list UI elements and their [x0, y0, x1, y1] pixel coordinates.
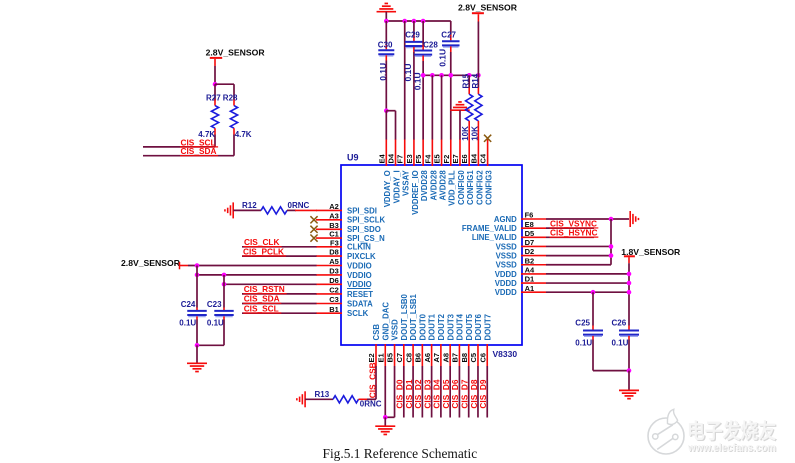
svg-text:CIS_HSYNC: CIS_HSYNC — [550, 228, 598, 238]
svg-text:A7: A7 — [432, 353, 441, 363]
pin A3 (SPI_SCLK) left stub — [316, 211, 385, 224]
svg-text:DOUT3: DOUT3 — [446, 313, 455, 340]
svg-text:RESET: RESET — [347, 290, 373, 299]
pin A8 (DOUT3) bottom stub — [441, 313, 455, 366]
pin A1 (VDDD) right stub — [495, 284, 546, 297]
wire D2 row — [546, 253, 613, 258]
svg-text:CIS_RSTN: CIS_RSTN — [244, 284, 285, 294]
svg-text:VSSD: VSSD — [391, 319, 400, 341]
svg-text:C2: C2 — [329, 286, 339, 295]
node CIS_D5 wire — [441, 366, 451, 418]
node junction C24 top — [195, 263, 200, 268]
wire D6 row — [224, 283, 317, 285]
svg-text:CONFIG0: CONFIG0 — [457, 170, 466, 205]
pin E3 (VDDREF_IO) top stub — [405, 139, 420, 215]
svg-text:VSSD: VSSD — [496, 261, 518, 270]
svg-text:VDD_PLL: VDD_PLL — [448, 170, 457, 206]
svg-text:SDATA: SDATA — [347, 299, 373, 308]
svg-text:VDDAY_I: VDDAY_I — [392, 170, 401, 203]
wire A5 row — [188, 265, 317, 267]
watermark text — [687, 419, 778, 455]
pin D6 (VDDIO) left stub — [316, 276, 372, 289]
wire branch to D4 — [386, 111, 395, 140]
node CIS_SCL net stub — [143, 137, 218, 147]
capacitor C28 0.1U — [412, 21, 438, 140]
svg-text:2.8V_SENSOR: 2.8V_SENSOR — [121, 258, 181, 268]
wire R28 to CIS_SDA — [233, 135, 235, 156]
svg-text:C8: C8 — [404, 353, 413, 363]
capacitor C24 0.1U — [179, 266, 206, 346]
svg-text:SPI_SCLK: SPI_SCLK — [347, 216, 385, 225]
node CIS_D6 wire — [450, 366, 460, 418]
pin A6 (DOUT1) bottom stub — [423, 313, 437, 366]
svg-text:C29: C29 — [405, 31, 420, 40]
ground at R13 — [297, 391, 305, 407]
svg-text:0.1U: 0.1U — [575, 338, 592, 347]
wire ground to bus — [385, 12, 387, 21]
node junction rail bottom — [627, 368, 632, 373]
svg-text:VDDIO: VDDIO — [347, 271, 372, 280]
svg-text:VDDD: VDDD — [495, 288, 517, 297]
svg-text:AVDD28: AVDD28 — [429, 170, 438, 201]
pin F7 (VSSAY) top stub — [396, 139, 411, 196]
pin B8 (DOUT5) bottom stub — [460, 313, 474, 366]
svg-text:A8: A8 — [441, 353, 450, 363]
no-connect X pin C1 — [310, 235, 317, 242]
svg-text:C26: C26 — [612, 319, 627, 328]
node CIS_VSYNC wire pin E8 — [546, 218, 598, 228]
node junction C23-D3 — [222, 273, 227, 278]
svg-text:C24: C24 — [181, 300, 196, 309]
svg-text:C30: C30 — [378, 41, 393, 50]
pin D4 (VDDAY_I) top stub — [387, 139, 402, 203]
pin F2 (VDD_PLL) top stub — [442, 139, 457, 206]
pin C8 (DOUT_LSB1) bottom stub — [404, 293, 418, 366]
pin D7 (VSSD) right stub — [496, 238, 546, 251]
pin E6 (CONFIG1) top stub — [460, 139, 475, 205]
wire AGND F6 to ground — [546, 218, 629, 220]
ground bottom center — [375, 426, 395, 434]
svg-text:F7: F7 — [396, 155, 405, 164]
caption Fig.5.1 Reference Schematic — [323, 446, 478, 461]
capacitor C30 0.1U — [378, 21, 395, 111]
svg-text:E7: E7 — [451, 154, 460, 163]
node bus dots — [384, 19, 425, 24]
wire VSSD vertical — [610, 219, 612, 265]
wire B5 col — [385, 366, 394, 417]
svg-text:B7: B7 — [451, 353, 460, 363]
watermark elecfans logo — [648, 409, 684, 454]
pin B3 (SPI_SDO) left stub — [316, 221, 381, 234]
node junction C24-D3 — [195, 273, 200, 278]
svg-text:C4: C4 — [479, 153, 488, 163]
svg-text:C6: C6 — [478, 353, 487, 363]
svg-text:F6: F6 — [525, 211, 534, 220]
no-connect X pin B3 — [310, 226, 317, 233]
svg-text:0.1U: 0.1U — [612, 338, 629, 347]
svg-text:VSSD: VSSD — [496, 252, 518, 261]
svg-text:DVDD28: DVDD28 — [420, 170, 429, 201]
no-connect X pin A3 — [310, 216, 317, 223]
svg-text:VDDD: VDDD — [495, 279, 517, 288]
wire F4 col — [431, 75, 433, 139]
svg-text:R12: R12 — [242, 201, 257, 210]
svg-text:DOUT4: DOUT4 — [456, 313, 465, 340]
svg-text:A6: A6 — [423, 353, 432, 363]
resistor R27 4.7K — [198, 93, 221, 138]
wire E5 col — [441, 75, 443, 139]
svg-text:GND_DAC: GND_DAC — [381, 302, 390, 341]
node CIS_D0 wire — [395, 366, 405, 418]
capacitor C29 0.1U — [403, 21, 423, 140]
pin B4 (CONFIG2) top stub — [469, 139, 484, 205]
svg-text:E8: E8 — [525, 220, 534, 229]
svg-text:DOUT2: DOUT2 — [437, 313, 446, 340]
node CIS_PCLK wire to pin D8 — [242, 246, 317, 256]
wire 2.8V to R27/R28 junction — [214, 66, 216, 84]
svg-text:SPI_CS_N: SPI_CS_N — [347, 234, 385, 243]
svg-text:E2: E2 — [367, 353, 376, 362]
svg-text:R15: R15 — [462, 73, 471, 88]
node CIS_D4 wire — [432, 366, 442, 418]
svg-text:C3: C3 — [329, 295, 339, 304]
svg-text:PIXCLK: PIXCLK — [347, 252, 376, 261]
wire branch to R28 — [215, 84, 234, 99]
svg-text:U9: U9 — [347, 153, 359, 163]
pin B2 (VSSD) right stub — [496, 256, 546, 269]
svg-text:D6: D6 — [329, 276, 339, 285]
pin D2 (VSSD) right stub — [496, 247, 546, 260]
wire F7 col — [404, 21, 406, 140]
svg-text:F3: F3 — [330, 238, 339, 247]
svg-text:0.1U: 0.1U — [179, 318, 196, 327]
svg-text:10K: 10K — [470, 126, 479, 141]
svg-text:B2: B2 — [525, 256, 535, 265]
svg-text:LINE_VALID: LINE_VALID — [472, 233, 517, 242]
svg-text:4.7K: 4.7K — [235, 130, 252, 139]
svg-text:DOUT0: DOUT0 — [418, 313, 427, 340]
pin C3 (SDATA) left stub — [316, 295, 373, 308]
svg-text:D2: D2 — [525, 247, 535, 256]
svg-text:电子发烧友: 电子发烧友 — [687, 419, 776, 443]
svg-text:B1: B1 — [329, 305, 339, 314]
svg-text:DOUT7: DOUT7 — [483, 314, 492, 340]
svg-text:D7: D7 — [525, 238, 535, 247]
pin B6 (DOUT0) bottom stub — [414, 313, 428, 366]
wire D7 row — [546, 244, 613, 249]
wire C23 to C24 bottom — [197, 344, 224, 346]
capacitor C27 0.1U — [438, 21, 460, 140]
node pullup junction — [213, 82, 218, 87]
wire to bottom-right ground — [628, 371, 630, 390]
pin B7 (DOUT4) bottom stub — [451, 313, 465, 366]
wire 2.8V bus (mid) — [423, 74, 478, 76]
node CIS_D8 wire — [469, 366, 479, 418]
node CIS_D2 wire — [413, 366, 423, 418]
wire top bus (gnd) — [386, 20, 451, 22]
svg-text:CLKIN: CLKIN — [347, 243, 371, 252]
svg-text:CIS_CSB: CIS_CSB — [367, 362, 377, 398]
pin C7 (DOUT_LSB0) bottom stub — [395, 293, 409, 366]
wire R12 to pin A2 — [287, 209, 317, 211]
svg-text:V8330: V8330 — [493, 349, 518, 359]
ground below C24 — [187, 363, 207, 371]
wire C25 to rail bottom — [593, 370, 629, 372]
svg-text:E3: E3 — [405, 154, 414, 163]
wire A1 row — [546, 290, 631, 295]
node CIS_D1 wire — [404, 366, 414, 418]
node CIS_CLK wire to pin F3 — [242, 237, 317, 247]
pin B1 (SCLK) left stub — [316, 305, 369, 318]
svg-text:A1: A1 — [525, 284, 535, 293]
pin E1 (GND_DAC) bottom stub — [376, 302, 390, 366]
svg-text:CIS_SDA: CIS_SDA — [244, 294, 280, 304]
node CIS_SCL wire to pin B1 — [242, 303, 317, 313]
svg-text:2.8V_SENSOR: 2.8V_SENSOR — [206, 47, 266, 57]
svg-text:SPI_SDO: SPI_SDO — [347, 225, 381, 234]
svg-text:DOUT1: DOUT1 — [428, 313, 437, 340]
node junction E4-D4 — [384, 108, 389, 113]
wire E1 col to ground — [384, 366, 386, 417]
svg-text:VDDAY_O: VDDAY_O — [383, 170, 392, 207]
svg-text:A3: A3 — [329, 211, 339, 220]
wire D1 row — [546, 281, 631, 286]
resistor R28 4.7K — [223, 93, 252, 138]
svg-text:DOUT5: DOUT5 — [465, 313, 474, 340]
svg-text:CONFIG3: CONFIG3 — [485, 170, 494, 205]
svg-text:B6: B6 — [414, 353, 423, 363]
svg-text:AGND: AGND — [494, 215, 517, 224]
svg-text:A4: A4 — [525, 266, 535, 275]
svg-text:0RNC: 0RNC — [288, 201, 310, 210]
pin E7 (CONFIG0) top stub — [451, 139, 466, 205]
ground right of F6 — [630, 211, 638, 227]
pin F6 (AGND) right stub — [494, 211, 546, 224]
svg-text:0.1U: 0.1U — [412, 72, 422, 90]
svg-text:C7: C7 — [395, 353, 404, 363]
resistor R12 0RNC — [233, 201, 309, 214]
pin A2 (SPI_SDI) left stub — [316, 202, 377, 215]
svg-text:CIS_PCLK: CIS_PCLK — [243, 246, 284, 256]
svg-text:B8: B8 — [460, 353, 469, 363]
svg-text:DOUT6: DOUT6 — [474, 313, 483, 340]
wire E7 ground to pin — [459, 110, 461, 139]
ground above pin E7 — [450, 102, 470, 110]
svg-text:R13: R13 — [315, 390, 330, 399]
svg-text:VDDD: VDDD — [495, 270, 517, 279]
power 2.8V_SENSOR tap at pin A5 — [121, 258, 188, 269]
svg-text:FRAME_VALID: FRAME_VALID — [462, 224, 517, 233]
svg-text:A2: A2 — [329, 202, 339, 211]
power 2.8V_SENSOR (pull-up rail) — [206, 47, 266, 66]
pin E8 (FRAME_VALID) right stub — [462, 220, 546, 233]
svg-text:10K: 10K — [461, 126, 470, 141]
ground bottom right — [619, 390, 639, 398]
svg-text:C25: C25 — [575, 319, 590, 328]
svg-text:0.1U: 0.1U — [438, 49, 448, 67]
svg-text:Fig.5.1 Reference Schematic: Fig.5.1 Reference Schematic — [323, 446, 478, 461]
pin C6 (DOUT7) bottom stub — [478, 314, 492, 366]
no-connect X pin C4 — [484, 135, 491, 142]
node mid bus dots — [421, 73, 481, 78]
wire E4 col to pin — [385, 111, 387, 140]
node CIS_RSTN wire to pin C2 — [242, 284, 317, 294]
svg-text:VDDIO: VDDIO — [347, 261, 372, 270]
svg-text:B3: B3 — [329, 221, 339, 230]
svg-text:VDDIO: VDDIO — [347, 280, 372, 289]
svg-text:D4: D4 — [387, 153, 396, 163]
wire to R27 — [214, 84, 216, 99]
power 2.8V_SENSOR top right — [458, 3, 518, 22]
pin D1 (VDDD) right stub — [495, 275, 546, 288]
svg-text:DOUT_LSB1: DOUT_LSB1 — [409, 293, 418, 340]
svg-text:2.8V_SENSOR: 2.8V_SENSOR — [458, 3, 518, 13]
node CIS_D3 wire — [422, 366, 432, 418]
svg-text:C1: C1 — [329, 230, 339, 239]
svg-text:VSSAY: VSSAY — [402, 170, 411, 197]
resistor R15 10K — [461, 73, 473, 141]
wire 1.8V rail — [628, 263, 630, 325]
capacitor C23 0.1U — [207, 275, 234, 345]
svg-text:CIS_SCL: CIS_SCL — [244, 303, 279, 313]
pin C1 (SPI_CS_N) left stub — [316, 230, 385, 243]
wire R27 to CIS_SCL — [214, 135, 216, 147]
power 1.8V_SENSOR — [621, 247, 681, 263]
svg-text:D5: D5 — [525, 229, 535, 238]
svg-text:R28: R28 — [223, 93, 238, 102]
svg-text:CONFIG1: CONFIG1 — [466, 170, 475, 205]
svg-text:CONFIG2: CONFIG2 — [475, 170, 484, 205]
svg-text:C27: C27 — [441, 30, 456, 39]
svg-text:CIS_D9: CIS_D9 — [478, 379, 488, 408]
svg-text:SCLK: SCLK — [347, 309, 369, 318]
svg-text:D8: D8 — [329, 248, 339, 257]
wire A4 row — [546, 272, 631, 277]
resistor R13 0RNC — [305, 390, 382, 408]
pin C4 (CONFIG3) top stub — [479, 139, 494, 205]
svg-text:D3: D3 — [329, 267, 339, 276]
svg-text:F5: F5 — [414, 155, 423, 164]
resistor R14 10K — [470, 22, 482, 141]
node CIS_D9 wire — [478, 366, 488, 418]
svg-text:0.1U: 0.1U — [207, 318, 224, 327]
svg-text:B4: B4 — [469, 153, 478, 163]
svg-text:R27: R27 — [206, 93, 221, 102]
pin D3 (VDDIO) left stub — [316, 267, 372, 280]
svg-text:0RNC: 0RNC — [360, 400, 382, 409]
pin B5 (VSSD) bottom stub — [386, 319, 400, 366]
svg-text:A5: A5 — [329, 257, 339, 266]
node junction bottom ground — [383, 415, 388, 420]
wire B2 row — [546, 264, 611, 266]
ground top center — [377, 3, 397, 11]
pin E2 (CSB) bottom stub — [367, 324, 381, 366]
svg-text:F2: F2 — [442, 155, 451, 164]
svg-text:AVDD28: AVDD28 — [438, 170, 447, 201]
svg-text:VDDREF_IO: VDDREF_IO — [411, 170, 420, 215]
wire D3 row — [197, 274, 317, 276]
pin F3 (CLKIN) left stub — [316, 238, 371, 251]
svg-text:E5: E5 — [433, 154, 442, 163]
wire to bottom-center ground — [384, 417, 386, 425]
ground at R12 — [225, 202, 233, 218]
svg-text:CSB: CSB — [372, 324, 381, 341]
svg-text:C28: C28 — [423, 40, 438, 49]
svg-text:B5: B5 — [386, 353, 395, 363]
svg-text:E4: E4 — [377, 153, 386, 163]
svg-text:E6: E6 — [460, 154, 469, 163]
capacitor C26 0.1U — [612, 319, 640, 371]
node CIS_SDA net stub — [143, 146, 234, 156]
svg-text:SPI_SDI: SPI_SDI — [347, 206, 377, 215]
svg-text:D1: D1 — [525, 275, 535, 284]
IC U9 image-sensor interface chip V8330 — [341, 153, 522, 360]
node CIS_CSB label pin E2 — [367, 362, 377, 399]
node junction F6-VSSD — [609, 217, 614, 222]
pin C5 (DOUT6) bottom stub — [469, 313, 483, 366]
svg-text:www.elecfans.com: www.elecfans.com — [687, 442, 776, 454]
node CIS_D7 wire — [460, 366, 470, 418]
pin C2 (RESET) left stub — [316, 286, 373, 299]
svg-text:C5: C5 — [469, 353, 478, 363]
svg-text:E1: E1 — [376, 353, 385, 362]
svg-text:CIS_SDA: CIS_SDA — [181, 146, 217, 156]
node CIS_HSYNC wire pin D5 — [546, 228, 598, 238]
pin F5 (DVDD28) top stub — [414, 139, 429, 201]
pin A5 (VDDIO) left stub — [316, 257, 372, 270]
pin A4 (VDDD) right stub — [495, 266, 546, 279]
svg-text:F4: F4 — [423, 154, 432, 164]
pin E5 (AVDD28) top stub — [433, 139, 448, 200]
wire to ground — [196, 345, 198, 362]
node CIS_SDA wire to pin C3 — [242, 294, 317, 304]
node junction C23-D6 — [222, 282, 227, 287]
wire R13 to pin E2 — [367, 398, 376, 400]
svg-text:VSSD: VSSD — [496, 242, 518, 251]
pin A7 (DOUT2) bottom stub — [432, 313, 446, 366]
svg-text:C23: C23 — [207, 300, 222, 309]
node junction caps bottom — [195, 343, 200, 348]
svg-text:R14: R14 — [471, 73, 480, 88]
pin F4 (AVDD28) top stub — [423, 139, 438, 200]
pin E4 (VDDAY_O) top stub — [377, 139, 392, 207]
capacitor C25 0.1U — [575, 292, 603, 370]
pin D8 (PIXCLK) left stub — [316, 248, 376, 261]
pin D5 (LINE_VALID) right stub — [472, 229, 546, 242]
svg-text:DOUT_LSB0: DOUT_LSB0 — [400, 293, 409, 340]
